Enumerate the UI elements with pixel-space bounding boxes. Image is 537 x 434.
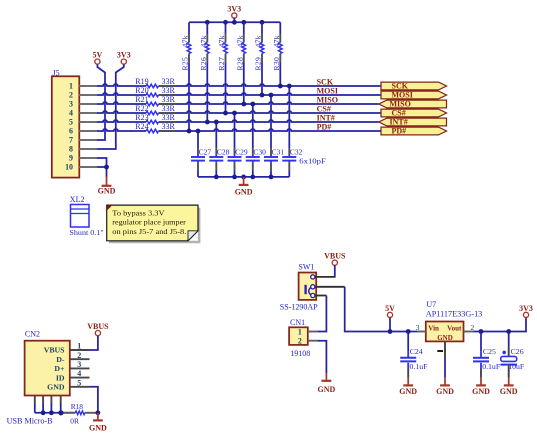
svg-text:D+: D+ <box>54 364 65 373</box>
svg-text:ID: ID <box>56 373 65 382</box>
node CS# label <box>317 104 331 113</box>
capacitor C24 0.1uF <box>400 332 428 378</box>
svg-text:47k: 47k <box>181 35 190 47</box>
node MOSI label <box>317 86 338 95</box>
resistor R20 33R <box>135 86 176 97</box>
svg-text:MOSI: MOSI <box>392 91 413 100</box>
junction R30 to row <box>278 84 283 89</box>
jumper XL2 <box>69 195 103 237</box>
flag CS# <box>381 109 447 118</box>
wire row 6 (PD# net) <box>97 129 381 131</box>
svg-text:INT#: INT# <box>317 113 335 122</box>
junctions 5V rail <box>388 329 411 334</box>
svg-text:33R: 33R <box>162 104 176 113</box>
svg-text:GND: GND <box>500 387 518 396</box>
ground (CN2) <box>89 413 107 433</box>
svg-text:CN1: CN1 <box>290 318 305 327</box>
svg-text:Shunt 0.1": Shunt 0.1" <box>69 228 103 237</box>
wire U7 output rail to 3V3 <box>474 318 527 332</box>
svg-text:SS-1290AP: SS-1290AP <box>280 303 318 312</box>
svg-text:10: 10 <box>65 163 73 172</box>
svg-text:Vin: Vin <box>428 324 439 332</box>
svg-text:R26: R26 <box>199 57 208 71</box>
svg-text:GND: GND <box>89 423 107 432</box>
svg-text:R28: R28 <box>235 57 244 71</box>
junction shield/R18 <box>58 410 63 415</box>
capacitor C28 10pF <box>209 122 229 177</box>
wire CN1 pin2 to GND <box>317 341 326 373</box>
CN2 pin stubs 1-5 <box>70 342 90 388</box>
svg-text:5V: 5V <box>93 51 103 60</box>
flag SCK <box>381 82 447 91</box>
svg-text:3: 3 <box>416 323 420 332</box>
resistor R23 33R <box>135 113 176 124</box>
svg-text:CS#: CS# <box>317 104 331 113</box>
svg-text:0R: 0R <box>70 417 79 426</box>
svg-text:GND: GND <box>318 385 336 394</box>
junction R18 / CN2 gnd <box>96 410 101 415</box>
connector CN2 (USB Micro-B) <box>7 330 70 426</box>
svg-text:8: 8 <box>69 145 73 154</box>
power 5V (regulator input) <box>385 304 395 318</box>
resistor R18 0R <box>61 402 98 426</box>
svg-text:47k: 47k <box>235 35 244 47</box>
svg-text:2: 2 <box>298 337 302 346</box>
svg-text:MOSI: MOSI <box>317 86 338 95</box>
ground (C25) <box>472 378 490 396</box>
svg-text:C27: C27 <box>199 148 212 157</box>
junction J5 gnd <box>104 165 109 170</box>
wire SW1 middle contact to 5V rail <box>315 287 417 332</box>
pin number 2 (U7 Vout) <box>470 323 474 332</box>
svg-text:GND: GND <box>235 187 253 196</box>
svg-text:on pins J5-7 and J5-8.: on pins J5-7 and J5-8. <box>112 227 186 236</box>
svg-text:2: 2 <box>470 323 474 332</box>
svg-text:47k: 47k <box>254 35 263 47</box>
pin number 3 (U7 Vin) <box>416 323 420 332</box>
svg-text:D-: D- <box>56 355 65 364</box>
wire CN2 pin5 (GND) <box>90 387 98 413</box>
junctions ground rail <box>214 175 273 180</box>
svg-text:CN2: CN2 <box>25 330 40 339</box>
svg-text:19108: 19108 <box>290 349 310 358</box>
resistor R26 47k <box>199 22 209 122</box>
svg-text:R21: R21 <box>135 95 148 104</box>
power VBUS (SW1) <box>324 252 346 266</box>
svg-text:C26: C26 <box>511 347 524 356</box>
capacitor C25 0.1uF <box>473 332 501 378</box>
junction C28 to row <box>214 120 219 125</box>
svg-text:3V3: 3V3 <box>117 51 131 60</box>
svg-text:C28: C28 <box>217 148 230 157</box>
resistor R19 33R <box>135 77 176 88</box>
U7 GND pin 1 mark <box>437 350 443 352</box>
capacitor C26 10uF <box>500 332 524 378</box>
J5 pins 1-10 <box>79 86 97 167</box>
junctions 3V3 rail <box>205 20 264 25</box>
capacitor C27 10pF <box>191 131 211 177</box>
svg-text:1: 1 <box>77 342 81 351</box>
label 6x10pF <box>299 157 326 166</box>
C26 polarity mark <box>502 351 506 355</box>
svg-text:R29: R29 <box>254 57 263 71</box>
wire VBUS to SW1 top contact <box>315 265 336 277</box>
svg-text:R23: R23 <box>135 113 148 122</box>
svg-text:XL2: XL2 <box>70 195 85 204</box>
junction R29 to row <box>260 93 265 98</box>
wire row 3 (MISO net) <box>97 102 379 104</box>
svg-text:0.1uF: 0.1uF <box>410 362 429 371</box>
svg-text:MISO: MISO <box>317 95 338 104</box>
node PD# label <box>317 122 332 131</box>
resistor R24 33R <box>135 122 176 133</box>
svg-text:5V: 5V <box>385 304 395 313</box>
resistor R30 47k <box>272 22 282 86</box>
svg-text:GND: GND <box>437 334 453 342</box>
svg-text:33R: 33R <box>162 77 176 86</box>
svg-text:1: 1 <box>298 328 302 337</box>
svg-text:2: 2 <box>69 91 73 100</box>
svg-text:SCK: SCK <box>317 77 334 86</box>
svg-text:R19: R19 <box>135 77 148 86</box>
flag INT# <box>379 118 447 127</box>
wire row 4 (CS# net) <box>97 111 381 113</box>
junction R28 to row <box>241 102 246 107</box>
wire SW1 bottom contact to CN1 pin 1 <box>315 296 326 332</box>
wire row 2 (MOSI net) <box>97 93 381 95</box>
flag MISO <box>379 100 447 109</box>
svg-text:To bypass 3.3V: To bypass 3.3V <box>112 208 165 217</box>
wire J5 pins 9,10 to GND <box>97 158 107 177</box>
capacitor C32 10pF <box>282 86 302 177</box>
svg-text:0.1uF: 0.1uF <box>482 362 501 371</box>
svg-text:J5: J5 <box>53 68 60 77</box>
junction C30 to row <box>250 102 255 107</box>
connector CN1 19108 <box>289 318 310 358</box>
svg-text:R24: R24 <box>135 122 148 131</box>
junction C27 to row <box>196 129 201 134</box>
wire 5V to J5 pin 7 <box>97 65 105 141</box>
resistor R29 47k <box>254 22 264 95</box>
svg-text:GND: GND <box>98 187 116 196</box>
node INT# label <box>317 113 335 122</box>
svg-text:VBUS: VBUS <box>324 252 346 261</box>
note: bypass instructions <box>107 205 201 243</box>
svg-text:3V3: 3V3 <box>519 304 533 313</box>
ground (U7) <box>436 378 454 396</box>
svg-text:SW1: SW1 <box>298 263 314 272</box>
svg-text:47k: 47k <box>199 35 208 47</box>
junction C31 to row <box>269 93 274 98</box>
svg-text:47k: 47k <box>217 35 226 47</box>
svg-text:3V3: 3V3 <box>227 4 241 13</box>
svg-text:VBUS: VBUS <box>44 346 65 355</box>
svg-text:GND: GND <box>47 383 65 392</box>
power 3V3 (pull-up rail) <box>227 4 241 18</box>
svg-text:PD#: PD# <box>317 122 332 131</box>
switch SW1 SS-1290AP <box>280 263 318 312</box>
junction C29 to row <box>232 111 237 116</box>
svg-text:C30: C30 <box>253 148 266 157</box>
svg-text:4: 4 <box>77 369 81 378</box>
resistor R27 47k <box>217 22 227 113</box>
svg-text:GND: GND <box>436 387 454 396</box>
svg-text:3: 3 <box>69 100 73 109</box>
svg-text:C29: C29 <box>235 148 248 157</box>
svg-text:1: 1 <box>69 82 73 91</box>
svg-text:C32: C32 <box>290 148 303 157</box>
svg-text:6x10pF: 6x10pF <box>299 157 326 166</box>
junction R26 to row <box>205 120 210 125</box>
svg-text:R20: R20 <box>135 86 148 95</box>
svg-text:6: 6 <box>69 127 73 136</box>
svg-text:R25: R25 <box>181 57 190 71</box>
svg-text:7: 7 <box>69 136 73 145</box>
svg-text:C24: C24 <box>410 347 423 356</box>
U7 pin stubs <box>417 332 474 378</box>
junction C32 to row <box>287 84 292 89</box>
wire CN2 pin1 to VBUS <box>90 336 98 350</box>
svg-text:R27: R27 <box>217 57 226 71</box>
svg-text:regulator place jumper: regulator place jumper <box>112 218 186 227</box>
svg-text:PD#: PD# <box>392 127 407 136</box>
wire 3V3 to J5 pin 8 <box>97 65 124 150</box>
CN1 pin stubs <box>308 332 318 341</box>
capacitor C31 10pF <box>264 95 284 177</box>
svg-text:33R: 33R <box>162 86 176 95</box>
svg-text:3: 3 <box>77 360 81 369</box>
wire row 5 (INT# net) <box>97 120 379 122</box>
svg-text:5: 5 <box>77 378 81 387</box>
node MISO label <box>317 95 338 104</box>
CN2 shield pins <box>35 396 61 405</box>
svg-text:33R: 33R <box>162 95 176 104</box>
svg-text:AP1117E33G-13: AP1117E33G-13 <box>426 310 483 319</box>
svg-text:R22: R22 <box>135 104 148 113</box>
wire row 1 (SCK net) <box>97 84 381 86</box>
svg-text:CS#: CS# <box>392 109 406 118</box>
svg-text:GND: GND <box>472 387 490 396</box>
wire 3V3 rail <box>189 18 280 22</box>
resistor R25 47k <box>181 22 191 131</box>
power 5V (J5) <box>93 51 103 65</box>
power VBUS (CN2) <box>87 322 109 336</box>
ground (J5) <box>98 176 116 195</box>
svg-text:9: 9 <box>69 154 73 163</box>
svg-text:10uF: 10uF <box>508 362 525 371</box>
svg-text:GND: GND <box>399 387 417 396</box>
connector J5 <box>52 68 80 177</box>
power 3V3 (J5) <box>117 51 131 65</box>
flag MOSI <box>381 91 447 100</box>
ground (capacitor rail) <box>235 177 253 197</box>
resistor R28 47k <box>235 22 245 104</box>
svg-text:R30: R30 <box>272 57 281 71</box>
svg-text:5: 5 <box>69 118 73 127</box>
svg-text:33R: 33R <box>162 122 176 131</box>
junctions shield rail <box>41 410 63 415</box>
svg-text:VBUS: VBUS <box>87 322 109 331</box>
wire CN2 shield rail <box>35 404 75 413</box>
svg-text:SCK: SCK <box>392 82 409 91</box>
capacitor C30 10pF <box>246 104 266 177</box>
flag PD# <box>381 127 447 136</box>
svg-text:INT#: INT# <box>390 118 408 127</box>
junctions output rail <box>479 329 512 334</box>
svg-text:USB Micro-B: USB Micro-B <box>7 416 53 425</box>
ground (C26) <box>500 378 518 396</box>
regulator U7 AP1117E33G-13 <box>426 300 483 342</box>
svg-text:47k: 47k <box>272 35 281 47</box>
wire 5V stem <box>389 318 391 332</box>
wire capacitor ground rail <box>198 176 289 178</box>
power 3V3 (regulator output) <box>519 304 533 318</box>
svg-text:Vout: Vout <box>447 324 462 332</box>
resistor R22 33R <box>135 104 176 115</box>
svg-text:R18: R18 <box>71 402 84 411</box>
ground (C24) <box>399 378 417 396</box>
ground (CN1) <box>318 373 336 394</box>
svg-text:C25: C25 <box>483 347 496 356</box>
capacitor C29 10pF <box>228 113 248 177</box>
svg-text:2: 2 <box>77 351 81 360</box>
svg-text:4: 4 <box>69 109 73 118</box>
node SCK label <box>317 77 334 86</box>
junction R27 to row <box>223 111 228 116</box>
svg-text:MISO: MISO <box>390 100 411 109</box>
resistor R21 33R <box>135 95 176 106</box>
junction R25 to row <box>187 129 192 134</box>
svg-text:33R: 33R <box>162 113 176 122</box>
svg-text:U7: U7 <box>426 300 436 309</box>
svg-text:C31: C31 <box>272 148 285 157</box>
